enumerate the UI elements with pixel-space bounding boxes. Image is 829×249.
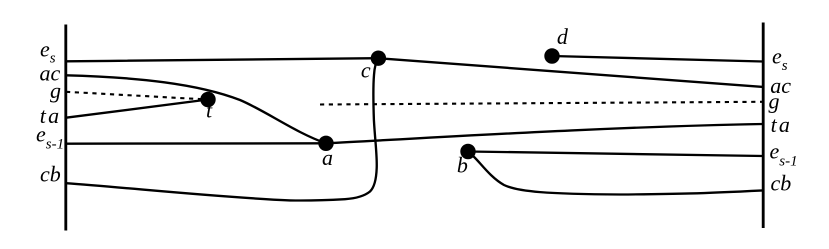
node d	[544, 48, 559, 63]
node a	[318, 136, 333, 151]
strand ta left to node t	[66, 100, 208, 118]
strand node b to e_s-1 right	[468, 152, 763, 157]
strand e_s left to node c	[66, 58, 378, 61]
svg-text:cb: cb	[771, 170, 792, 195]
svg-text:cb: cb	[40, 161, 61, 186]
svg-text:c: c	[361, 58, 371, 83]
strand node c to ac right	[378, 58, 763, 87]
dashed g segment left to node t	[66, 92, 202, 99]
svg-text:es-1: es-1	[770, 139, 798, 170]
svg-text:g: g	[50, 78, 61, 103]
right boundary line	[762, 23, 765, 229]
strand e_s-1 left to node a	[66, 142, 326, 145]
svg-text:a: a	[322, 145, 333, 170]
svg-text:t: t	[206, 98, 213, 123]
strand ac left to node a	[66, 75, 326, 143]
svg-text:es: es	[772, 43, 788, 74]
strand node a to ta right	[326, 124, 763, 143]
svg-text:d: d	[557, 24, 569, 49]
dashed g segment middle to g right	[320, 102, 763, 105]
node c	[371, 51, 386, 66]
svg-text:g: g	[769, 88, 780, 113]
svg-text:b: b	[457, 153, 468, 178]
strand node b to cb right	[468, 152, 763, 195]
svg-text:ta: ta	[771, 112, 793, 137]
node b	[460, 144, 475, 159]
strand cb left up to node c	[66, 58, 378, 200]
node t	[200, 92, 215, 107]
left boundary line	[64, 25, 67, 231]
strand node d to e_s right	[552, 56, 763, 62]
